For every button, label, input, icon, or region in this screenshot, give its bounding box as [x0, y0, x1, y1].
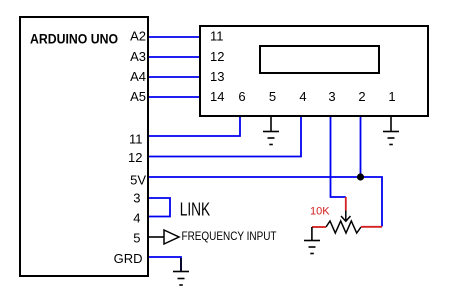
- svg-text:ARDUINO UNO: ARDUINO UNO: [30, 32, 118, 47]
- LCD module box: [200, 26, 428, 116]
- wire pot right terminal to 5V: [361, 226, 382, 228]
- ground symbol at LCD pin 1: [383, 132, 399, 145]
- potentiometer R1 10K body: [326, 221, 361, 233]
- svg-text:A4: A4: [130, 69, 146, 84]
- wire A4 to LCD 13: [149, 76, 199, 78]
- ground symbol at pot: [304, 241, 320, 254]
- wire A2 to LCD 11: [149, 36, 199, 38]
- svg-text:5: 5: [133, 231, 140, 246]
- wire pot wiper red segment: [345, 197, 347, 211]
- arduino board U1 box: [20, 17, 148, 276]
- svg-text:14: 14: [210, 89, 224, 104]
- svg-text:3: 3: [133, 191, 140, 206]
- wire 5V net: [149, 177, 382, 227]
- svg-text:FREQUENCY INPUT: FREQUENCY INPUT: [182, 229, 278, 243]
- svg-text:4: 4: [133, 211, 140, 226]
- svg-text:A5: A5: [130, 89, 146, 104]
- pot wiper arrow: [341, 211, 351, 222]
- svg-text:A2: A2: [130, 29, 146, 44]
- svg-text:12: 12: [210, 49, 224, 64]
- svg-text:2: 2: [358, 89, 365, 104]
- svg-text:11: 11: [210, 29, 224, 44]
- svg-text:10K: 10K: [310, 206, 330, 218]
- svg-text:6: 6: [238, 89, 245, 104]
- svg-text:12: 12: [128, 150, 142, 165]
- svg-text:13: 13: [210, 69, 224, 84]
- ground stub LCD pin 5: [270, 117, 272, 131]
- svg-text:5V: 5V: [130, 173, 146, 188]
- svg-text:11: 11: [129, 131, 143, 146]
- ground symbol at LCD pin 5: [263, 132, 279, 145]
- wire pot left terminal to ground: [312, 226, 326, 228]
- wire A3 to LCD 12: [149, 56, 199, 58]
- svg-text:3: 3: [328, 89, 335, 104]
- wire arduino 12 to LCD pin 4: [149, 117, 301, 157]
- wire A5 to LCD 14: [149, 96, 199, 98]
- ground symbol at GRD: [173, 258, 189, 285]
- svg-text:4: 4: [299, 89, 306, 104]
- link jumper wire pins 3-4: [149, 198, 170, 217]
- wire arduino pin 5 input: [149, 236, 164, 238]
- svg-text:LINK: LINK: [180, 200, 211, 220]
- wire LCD pin 3 to wiper: [331, 117, 346, 197]
- wire LCD pin 2 to 5V net: [360, 117, 362, 177]
- buffer triangle frequency input: [164, 230, 179, 244]
- ground stub LCD pin 1: [390, 117, 392, 131]
- ground wire at pot left: [311, 227, 313, 240]
- svg-text:GRD: GRD: [114, 251, 143, 266]
- LCD screen window: [260, 46, 379, 73]
- wire arduino 11 to LCD pin 6: [149, 117, 240, 136]
- wire GRD to ground: [149, 257, 181, 271]
- svg-text:5: 5: [269, 89, 276, 104]
- junction dot 5V / pin 2: [357, 173, 364, 180]
- svg-text:A3: A3: [130, 49, 146, 64]
- svg-text:1: 1: [388, 89, 395, 104]
